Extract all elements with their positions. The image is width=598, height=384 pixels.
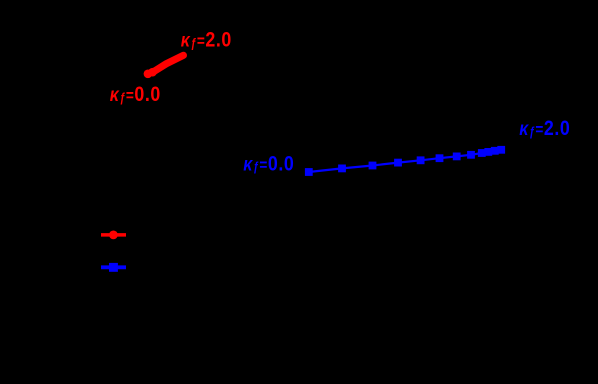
svg-text:κƒ=0.0: κƒ=0.0 [110,82,161,106]
legend red entry: line + circle [101,233,126,237]
red label kf=0.0 [110,82,161,106]
red label kf=2.0 [181,28,232,52]
blue series square markers [305,146,505,176]
blue label kf=2.0 [519,116,570,140]
blue label kf=0.0 [243,152,294,176]
blue series line [309,150,501,172]
svg-text:κƒ=2.0: κƒ=2.0 [181,28,232,52]
svg-text:κƒ=0.0: κƒ=0.0 [243,152,294,176]
red series (kappa_f sweep, circles overlapping) [144,68,157,78]
legend blue entry: line + square [101,265,126,269]
svg-text:κƒ=2.0: κƒ=2.0 [519,116,570,140]
